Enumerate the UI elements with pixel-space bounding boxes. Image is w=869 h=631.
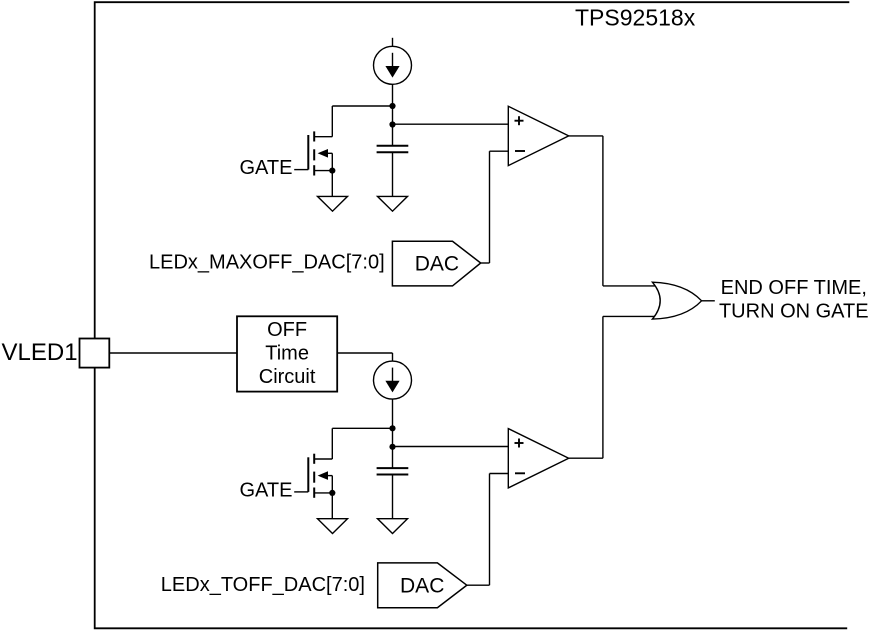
svg-text:GATE: GATE [240,157,293,179]
svg-text:TURN ON GATE: TURN ON GATE [719,301,869,323]
svg-text:OFF: OFF [267,319,307,341]
svg-text:VLED1: VLED1 [2,339,78,366]
svg-text:LEDx_TOFF_DAC[7:0]: LEDx_TOFF_DAC[7:0] [161,574,365,596]
svg-text:DAC: DAC [400,575,444,598]
svg-text:LEDx_MAXOFF_DAC[7:0]: LEDx_MAXOFF_DAC[7:0] [149,252,385,274]
svg-text:Circuit: Circuit [259,366,316,388]
svg-text:END OFF TIME,: END OFF TIME, [721,277,867,299]
svg-text:TPS92518x: TPS92518x [575,5,696,31]
svg-text:GATE: GATE [240,479,293,501]
svg-text:Time: Time [265,342,309,364]
svg-text:DAC: DAC [415,252,459,275]
